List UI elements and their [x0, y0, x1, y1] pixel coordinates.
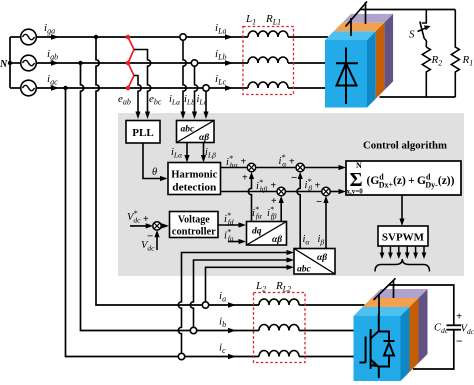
wire i*_fbeta up [279, 196, 284, 222]
wire i*_fd [218, 222, 246, 227]
alphabeta-to-abc block (bottom) [294, 249, 335, 275]
svg-text:iLb: iLb [184, 94, 195, 107]
current sensor ia [202, 302, 208, 308]
PLL block [126, 121, 160, 144]
label i_ga [44, 22, 59, 40]
label RL2 [275, 280, 291, 294]
svg-text:−: − [147, 231, 153, 243]
sign minus cap [456, 334, 463, 348]
wire ia sense up to abc [206, 265, 295, 302]
current sensor i_Lb [191, 60, 197, 66]
wire VC to junction [161, 223, 169, 228]
PCC voltage tap (red) [126, 35, 134, 91]
label i*_fd [224, 211, 234, 227]
svg-text:abc: abc [181, 125, 196, 135]
svg-text:Voltage: Voltage [178, 215, 210, 226]
wire: phase-b tap down to inverter line ib [81, 63, 193, 331]
label C_dc [434, 323, 449, 336]
rectifier DC pins [346, 2, 368, 37]
svg-text:controller: controller [172, 227, 217, 238]
label i_Lalpha [171, 147, 183, 160]
label theta [152, 167, 157, 178]
summing junction alpha-1 [247, 163, 255, 171]
wire: i_Lb sense down [192, 66, 198, 119]
label i*_hbeta [256, 178, 277, 194]
sign plus below beta-1 [271, 196, 277, 207]
label L2 [255, 280, 266, 294]
svg-text:S: S [409, 29, 415, 41]
label i_Lbeta [205, 147, 216, 160]
svg-text:ib: ib [219, 316, 226, 330]
wire sum to SVPWM [399, 195, 404, 226]
wire: phase-c tap down to inverter line ic [66, 88, 181, 357]
resistor R1 [451, 10, 459, 98]
label R2 [431, 54, 443, 68]
label i_gb [47, 48, 59, 66]
label V*_dc [127, 209, 149, 225]
current sensor i_La [180, 34, 186, 40]
svg-text:eab: eab [118, 93, 131, 107]
label e_ab [118, 93, 131, 107]
label i_a [219, 290, 236, 308]
AC source phase a [21, 29, 37, 45]
svg-text:+: + [271, 181, 277, 192]
svg-text:θ: θ [152, 167, 157, 178]
sign plus below alpha-1 [242, 173, 248, 184]
svg-text:detection: detection [172, 183, 216, 194]
inverter 3D body [354, 289, 428, 381]
svg-text:ebc: ebc [149, 93, 162, 107]
SVPWM gate arrows [380, 246, 427, 259]
dashed box L1 RL1 [243, 27, 294, 95]
voltage controller block [170, 212, 219, 238]
wire inverter line ic [180, 356, 354, 358]
svg-text:RL1: RL1 [265, 13, 281, 27]
svg-text:x,y=0: x,y=0 [347, 188, 364, 196]
wire: i_La sense down [180, 40, 186, 119]
svg-text:igc: igc [47, 73, 58, 87]
svg-text:igb: igb [47, 48, 58, 62]
wire: DC top to load [361, 9, 456, 11]
sign plus cap [456, 311, 462, 323]
svg-text:R1: R1 [462, 54, 474, 68]
inverter IGBT symbol [360, 314, 395, 378]
label i*_falpha [252, 205, 263, 221]
wire i*_falpha up [248, 172, 254, 222]
wire: load bottom return [380, 96, 456, 98]
svg-text:−: − [456, 334, 463, 348]
svg-text:+: + [242, 173, 248, 184]
svg-text:PLL: PLL [132, 127, 153, 139]
node tap phase b [78, 61, 82, 65]
label i_alpha [303, 234, 311, 247]
svg-text:i*β: i*β [305, 177, 313, 193]
svg-text:iLc: iLc [215, 73, 227, 87]
svg-text:R2: R2 [431, 54, 443, 68]
summing junction beta-1 [277, 187, 285, 195]
svg-text:+: + [289, 157, 295, 168]
gate signal brace [375, 259, 430, 272]
svg-text:+: + [143, 214, 149, 225]
svg-text:dq: dq [252, 227, 262, 237]
label i_b [219, 316, 236, 334]
sign minus Vdc [147, 231, 153, 243]
rectifier diode symbol [336, 48, 358, 105]
summing junction beta-2 [322, 187, 330, 195]
wire i_alpha up [297, 172, 303, 249]
wire alpha reference line [221, 165, 347, 170]
grid inductor Lc [248, 82, 288, 88]
svg-text:iga: iga [44, 22, 55, 36]
wire phase c [36, 87, 325, 89]
grid inductor La [248, 31, 288, 37]
inverter DC pins [374, 278, 396, 314]
svg-text:Harmonic: Harmonic [171, 170, 217, 181]
label Control algorithm [363, 140, 447, 152]
filter inductor La [259, 299, 299, 305]
svg-text:(GdDx+(z) + GdDy-(z)): (GdDx+(z) + GdDy-(z)) [367, 173, 455, 190]
label R1 [462, 54, 474, 68]
harmonic detection block [168, 163, 221, 195]
svg-text:L2: L2 [255, 280, 266, 294]
wire DC+ to capacitor [389, 285, 454, 325]
svg-text:iLb: iLb [215, 48, 227, 62]
wire inverter line ib [192, 330, 354, 332]
sign minus below alpha-2 [291, 172, 297, 184]
svg-text:αβ: αβ [272, 235, 282, 245]
svg-text:SVPWM: SVPWM [382, 232, 425, 244]
capacitor C_dc [447, 325, 462, 329]
label L1 [245, 13, 256, 27]
label V_dc cap [461, 324, 474, 337]
label i_La (sense) [169, 94, 180, 107]
label i_beta [318, 234, 325, 247]
wire beta reference line [221, 189, 347, 194]
sign minus below beta-2 [316, 196, 322, 208]
label i_gc [47, 73, 59, 91]
wire: i_Lc sense down [203, 91, 208, 119]
sum compensator block [346, 161, 461, 196]
svg-text:N: N [0, 59, 8, 70]
svg-text:Cdc: Cdc [434, 323, 449, 336]
rectifier 3D body [325, 14, 393, 108]
label S [409, 29, 415, 41]
current sensor ic [178, 353, 184, 359]
svg-text:−: − [316, 196, 322, 208]
svg-text:Control algorithm: Control algorithm [363, 140, 447, 152]
wire ib sense up to abc [190, 257, 294, 327]
wire i_Lbeta down [201, 143, 206, 163]
wire i*_fq [228, 239, 246, 244]
dashed box L2 RL2 [254, 293, 306, 363]
svg-text:N: N [356, 161, 362, 170]
label i_Lb (sense) [184, 94, 195, 107]
label V_dc fb [141, 240, 155, 253]
label i_c [219, 342, 236, 360]
svg-text:iLa: iLa [215, 22, 227, 36]
wire i_Lalpha down [184, 143, 189, 163]
summing junction Vdc [153, 222, 161, 230]
svg-text:+: + [456, 311, 462, 323]
label i*_beta [305, 177, 321, 193]
label i_Lc (line) [215, 73, 233, 91]
wire DC- return [413, 330, 454, 369]
node N [0, 59, 12, 70]
wire phase b [36, 62, 325, 64]
filter inductor Lc [259, 351, 299, 357]
svg-text:αβ: αβ [199, 133, 209, 143]
svg-text:−: − [291, 172, 297, 184]
node tap phase c [63, 86, 67, 90]
svg-text:ia: ia [219, 290, 226, 304]
switch S [418, 10, 431, 48]
wire ic sense up to abc [178, 250, 294, 353]
label i*_fbeta [267, 205, 277, 221]
wire Vdc feedback stub [154, 230, 159, 250]
wire: e_ab sense to PLL [134, 50, 151, 120]
AC source phase b [21, 55, 37, 71]
svg-text:abc: abc [297, 265, 312, 275]
summing junction alpha-2 [296, 163, 304, 171]
filter inductor Lb [259, 325, 299, 331]
label i*_alpha [279, 153, 296, 169]
label i_Lb (line) [215, 48, 233, 66]
svg-text:αβ: αβ [317, 253, 327, 263]
AC source phase c [21, 80, 37, 96]
wire: phase-a tap down to inverter line ia [96, 37, 180, 305]
SVPWM block [378, 226, 428, 246]
label e_bc [149, 93, 162, 107]
label RL1 [265, 13, 281, 27]
node tap phase a [94, 35, 98, 39]
svg-text:RL2: RL2 [275, 280, 291, 294]
grid inductor Lb [248, 57, 288, 63]
resistor R2 [422, 47, 430, 97]
abc-to-alphabeta block (top) [177, 121, 215, 144]
wire i_beta up [323, 196, 328, 249]
label i_Lc (sense) [197, 94, 208, 107]
wire Vdc* in [130, 223, 153, 228]
svg-text:+: + [241, 157, 247, 168]
current sensor ib [190, 327, 196, 333]
svg-text:L1: L1 [245, 13, 256, 27]
label i_La (line) [215, 22, 233, 40]
wire inverter line ia [180, 304, 365, 306]
svg-text:+: + [315, 181, 321, 192]
dq-to-alphabeta block [247, 222, 287, 246]
wire theta from PLL [143, 143, 168, 181]
wire: e_bc sense to PLL [134, 76, 141, 120]
control area background [118, 113, 464, 276]
wire phase a [36, 36, 328, 38]
wire: left neutral bus [10, 37, 21, 88]
label i*_fq [224, 228, 234, 244]
svg-text:iLa: iLa [169, 94, 180, 107]
current sensor i_Lc [203, 85, 209, 91]
label i*_halpha [226, 154, 247, 170]
svg-text:ic: ic [219, 342, 226, 356]
